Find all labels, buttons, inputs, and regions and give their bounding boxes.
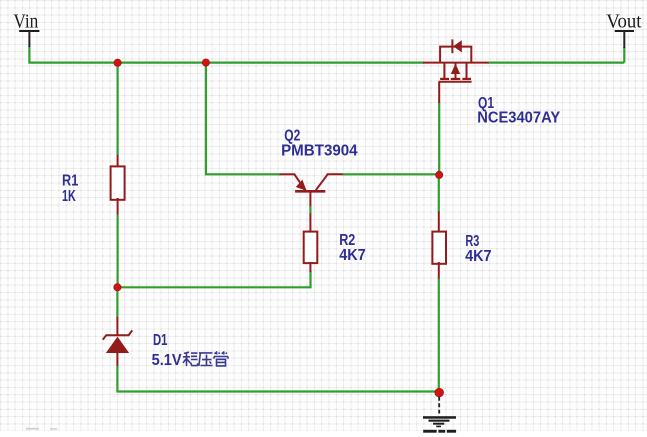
wire Q2 base <box>309 206 311 214</box>
svg-text:4K7: 4K7 <box>339 247 366 264</box>
junction dot gate node <box>436 171 443 178</box>
pin D1 anode <box>116 352 118 367</box>
wire R1 bottom <box>116 215 118 289</box>
svg-text:4K7: 4K7 <box>465 248 492 265</box>
pin R3 pin2 <box>438 262 440 280</box>
wire D1 top <box>116 287 118 318</box>
wire D1 bottom <box>116 366 118 393</box>
transistor Q2 <box>294 174 327 207</box>
mosfet Q1 <box>423 39 489 81</box>
svg-text:NCE3407AY: NCE3407AY <box>477 110 561 127</box>
pin R2 pin2 <box>309 262 311 272</box>
label D1 value <box>152 332 183 369</box>
label Q2 value <box>281 127 358 159</box>
label D1 chinese 稳 <box>183 352 198 366</box>
resistor R3 <box>432 232 446 264</box>
svg-text:PMBT3904: PMBT3904 <box>281 142 358 159</box>
svg-text:1K: 1K <box>62 188 76 205</box>
node Vout label <box>606 11 642 49</box>
wire R2 bottom <box>309 271 311 288</box>
pin R1 pin2 <box>117 198 119 216</box>
pin Q1 gate <box>438 82 440 104</box>
wire Q2 collector to gate node <box>343 173 440 175</box>
svg-text:R1: R1 <box>62 172 79 189</box>
junction dot node A <box>114 284 121 291</box>
label R3 value <box>465 233 492 265</box>
wire Vout drop <box>623 47 625 63</box>
diode D1 zener <box>103 330 132 353</box>
node Vin label <box>13 11 39 49</box>
pin R2 pin1 <box>309 214 311 234</box>
junction dot ground node <box>435 388 444 397</box>
label D1 chinese 管 <box>214 351 228 366</box>
wire R1 top <box>116 63 118 156</box>
svg-text:Vin: Vin <box>13 11 38 33</box>
label Q1 value <box>477 95 561 126</box>
resistor R1 <box>111 166 125 199</box>
svg-text:D1: D1 <box>153 332 168 349</box>
pin Q2 collector <box>327 173 344 175</box>
junction dot rail 1 <box>114 59 121 66</box>
junction dot rail 2 <box>202 59 209 66</box>
svg-text:Vout: Vout <box>606 11 642 33</box>
ground <box>423 397 456 433</box>
resistor R2 <box>304 232 318 264</box>
label R2 value <box>339 232 366 264</box>
wire gate to node <box>438 103 440 175</box>
wire top rail right <box>488 61 624 63</box>
wire Vin drop <box>29 47 117 63</box>
wire R3 top <box>438 174 440 212</box>
pin D1 cathode <box>116 317 118 336</box>
wire R3 bottom <box>438 279 440 393</box>
pin Q2 emitter <box>280 173 296 175</box>
label R1 value <box>62 172 79 205</box>
wire top rail left <box>117 61 206 63</box>
pin R3 pin1 <box>438 212 440 234</box>
wire upper branch vertical <box>206 63 281 175</box>
wire node A horizontal <box>117 286 310 288</box>
wire top rail middle <box>206 61 424 63</box>
wire bottom rail <box>117 390 439 392</box>
faint bottom-left marks <box>26 428 57 430</box>
pin R1 pin1 <box>117 155 119 168</box>
svg-text:5.1V: 5.1V <box>152 352 183 369</box>
label D1 chinese 压 <box>199 353 213 366</box>
